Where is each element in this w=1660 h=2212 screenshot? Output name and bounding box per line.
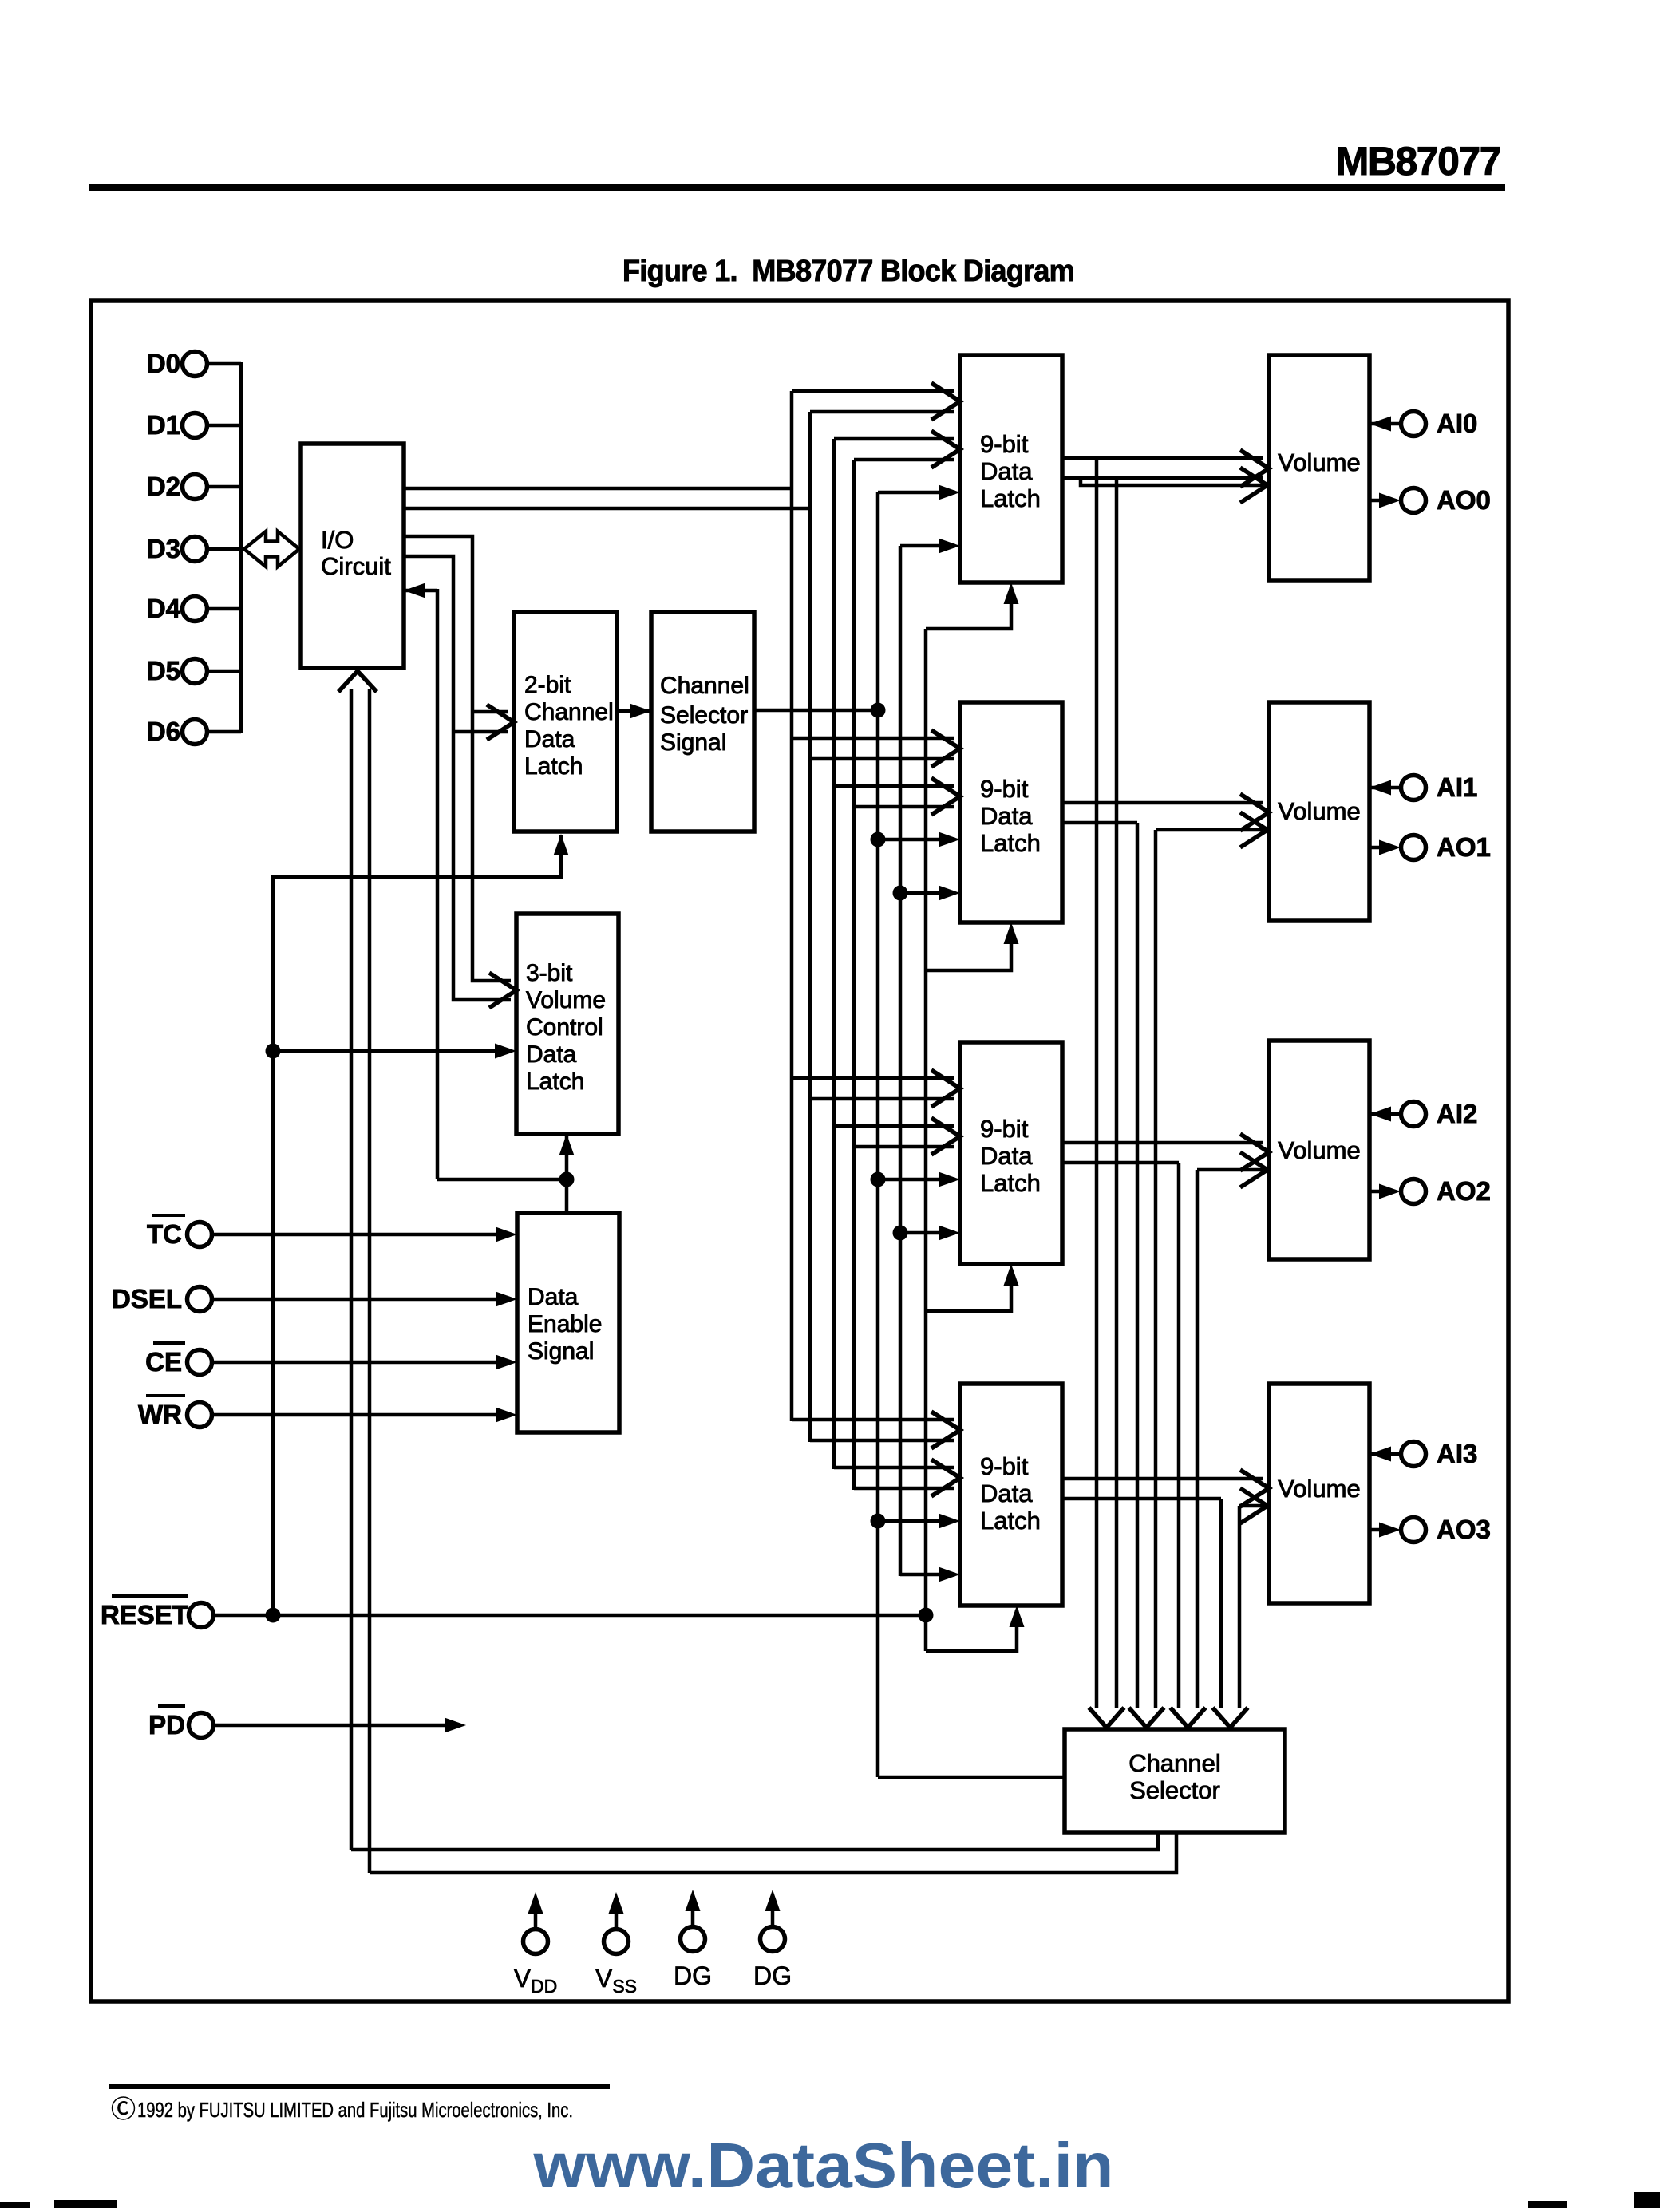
- bus arrow channel 3 into channel selector: [1213, 1708, 1248, 1728]
- wire latch 3 output pair to volume: [1062, 1477, 1263, 1481]
- svg-text:AI0: AI0: [1437, 409, 1477, 438]
- svg-text:3-bit: 3-bit: [526, 960, 573, 986]
- bidirectional bus arrow D-bus to I/O: [244, 531, 299, 567]
- wire clock into latch 2: [926, 927, 1011, 970]
- svg-text:Data: Data: [526, 1041, 577, 1068]
- scan artifact bottom-center-right: [1528, 2201, 1567, 2208]
- wire select return into volume 2: [1197, 1168, 1263, 1172]
- wire select into latch 3: [878, 1178, 955, 1182]
- wire channel bus 2 down A: [1177, 1163, 1181, 1708]
- bus arrow B into latch 2: [931, 778, 960, 815]
- node select bus tap latch 2: [871, 832, 886, 847]
- wire I/O data bus line B: [404, 507, 810, 511]
- bus arrow select into volume 2: [1240, 1152, 1267, 1187]
- wire channel select return vertical A: [350, 689, 354, 1850]
- power terminal: [604, 1930, 629, 1954]
- bus arrow into 3-bit volume control data latch: [489, 973, 516, 1008]
- wire volume-select vertical: [899, 546, 903, 1576]
- node volume-select tap latch 3: [893, 1226, 908, 1241]
- svg-text:Selector: Selector: [1129, 1776, 1220, 1804]
- wire branch into 2-bit latch lower: [453, 730, 508, 734]
- wire AO0 from volume: [1369, 499, 1395, 503]
- block Channel Selector: [1065, 1729, 1285, 1832]
- pin AO1 terminal: [1401, 835, 1426, 860]
- svg-text:Channel: Channel: [524, 699, 614, 725]
- wire TC to data enable signal: [212, 1233, 511, 1237]
- bus arrow into volume 3: [1240, 1470, 1269, 1507]
- pin D4 terminal: [183, 597, 207, 622]
- wire channel bus 1 down A: [1136, 823, 1140, 1708]
- svg-text:DG: DG: [674, 1961, 712, 1990]
- wire clock into latch 4: [926, 1610, 1017, 1651]
- svg-text:Channel: Channel: [1128, 1749, 1220, 1777]
- wire data bus vertical: [239, 362, 243, 733]
- bus arrow channel 1 into channel selector: [1129, 1708, 1164, 1728]
- wire AO1 from volume: [1369, 846, 1395, 850]
- svg-text:AI1: AI1: [1437, 772, 1477, 802]
- svg-text:D5: D5: [147, 656, 180, 685]
- pin WR terminal: [188, 1403, 212, 1428]
- wire data bus pair A into latch 1: [792, 389, 954, 393]
- wire AI3 into volume: [1369, 1452, 1401, 1456]
- wire data bus pair A into latch 2: [792, 737, 954, 741]
- svg-text:Signal: Signal: [660, 729, 726, 756]
- node RESET to 2-bit/3-bit branch: [266, 1608, 281, 1623]
- wire data-enable feedback into I/O: [404, 589, 437, 593]
- svg-text:Latch: Latch: [980, 1169, 1041, 1197]
- wire channel bus 3 down B: [1238, 1506, 1242, 1708]
- wire AI2 into volume: [1369, 1112, 1401, 1116]
- svg-text:TC: TC: [147, 1219, 182, 1249]
- wire 2-bit latch to channel selector signal: [617, 709, 651, 713]
- block I/O Circuit: [301, 444, 404, 668]
- wire bus vertical 4: [852, 460, 856, 1490]
- pin CE terminal: [188, 1350, 212, 1375]
- wire data bus pair B into latch 2: [834, 784, 954, 788]
- wire channel select return vertical B: [368, 689, 372, 1873]
- bus arrow A into latch 3: [931, 1070, 960, 1107]
- svg-text:Latch: Latch: [980, 1507, 1041, 1535]
- svg-text:DG: DG: [753, 1961, 792, 1990]
- wire D1 stub: [207, 424, 241, 428]
- svg-text:Volume: Volume: [1278, 1136, 1360, 1164]
- svg-text:Data: Data: [980, 457, 1033, 485]
- wire channel bus 2 down B: [1196, 1170, 1200, 1708]
- pin PD terminal: [189, 1713, 214, 1738]
- wire channel selector signal output: [754, 709, 878, 713]
- svg-text:VDD: VDD: [514, 1964, 558, 1997]
- svg-text:D6: D6: [147, 717, 180, 746]
- block 9-bit Data Latch 2: [960, 702, 1062, 922]
- svg-text:AO0: AO0: [1437, 485, 1491, 515]
- svg-text:Latch: Latch: [526, 1068, 584, 1095]
- svg-text:Enable: Enable: [528, 1311, 602, 1337]
- wire AI1 into volume: [1369, 786, 1401, 790]
- wire volume-select into latch 3: [900, 1231, 955, 1235]
- svg-text:9-bit: 9-bit: [980, 430, 1029, 458]
- wire channel bus 0 down A: [1095, 458, 1099, 1708]
- bus arrow select into volume 3: [1240, 1488, 1267, 1523]
- svg-text:Ⓒ: Ⓒ: [111, 2095, 136, 2123]
- bus arrow channel 2 into channel selector: [1171, 1708, 1206, 1728]
- svg-text:9-bit: 9-bit: [980, 1115, 1029, 1143]
- bus arrow into volume 2: [1240, 1134, 1269, 1171]
- svg-text:Circuit: Circuit: [321, 552, 391, 580]
- wire WR to data enable signal: [212, 1413, 511, 1417]
- copyright rule: [109, 2084, 610, 2089]
- pin TC terminal: [188, 1223, 212, 1247]
- bus arrow select into volume 1: [1240, 812, 1267, 847]
- node RESET to latch clock bus: [919, 1608, 934, 1623]
- power terminal: [524, 1930, 548, 1954]
- pin AI1 terminal: [1401, 776, 1426, 800]
- svg-text:Data: Data: [528, 1284, 579, 1310]
- pin D1 terminal: [183, 413, 207, 438]
- wire volume-select into latch 1: [900, 544, 955, 548]
- wire clock into latch 1: [926, 587, 1011, 629]
- pin AI2 terminal: [1401, 1102, 1426, 1127]
- pin D3 terminal: [183, 537, 207, 562]
- svg-text:Latch: Latch: [980, 829, 1041, 857]
- bus arrow into volume 1: [1240, 794, 1269, 831]
- block Volume 3: [1269, 1384, 1369, 1603]
- bus arrow B into latch 1: [931, 431, 960, 468]
- wire AO2 from volume: [1369, 1190, 1395, 1194]
- pin RESET terminal: [189, 1603, 214, 1628]
- block 3-bit Volume Control Data Latch: [516, 914, 619, 1134]
- svg-text:Channel: Channel: [660, 673, 749, 699]
- wire DES to 3-bit latch clock: [565, 1134, 569, 1213]
- bus arrow into volume 0: [1240, 450, 1269, 487]
- wire select into latch 1: [878, 491, 955, 495]
- block 9-bit Data Latch 4: [960, 1384, 1062, 1606]
- power terminal: [681, 1927, 705, 1952]
- wire channel selector bottom output A: [351, 1832, 1158, 1850]
- svg-text:DSEL: DSEL: [112, 1284, 182, 1313]
- svg-text:VSS: VSS: [595, 1964, 637, 1997]
- svg-text:I/O: I/O: [321, 526, 354, 554]
- wire D6 stub: [207, 730, 241, 734]
- pin AI0 terminal: [1401, 412, 1426, 436]
- svg-text:PD: PD: [148, 1710, 185, 1740]
- wire data bus pair B into latch 1: [834, 437, 954, 441]
- wire channel bus 0 down B: [1115, 478, 1119, 1708]
- wire select into latch 4: [878, 1519, 955, 1523]
- pin D5 terminal: [183, 659, 207, 684]
- svg-text:Volume: Volume: [526, 987, 606, 1013]
- svg-text:Data: Data: [524, 726, 575, 752]
- wire data bus pair A into latch 4: [792, 1418, 954, 1422]
- svg-text:Data: Data: [980, 1142, 1033, 1170]
- svg-text:D1: D1: [147, 410, 180, 440]
- wire latch 0 output pair to volume: [1062, 456, 1263, 460]
- wire clock into latch 3: [926, 1269, 1011, 1311]
- svg-text:Data: Data: [980, 1479, 1033, 1507]
- svg-text:1992 by FUJITSU LIMITED and Fu: 1992 by FUJITSU LIMITED and Fujitsu Micr…: [137, 2098, 573, 2122]
- bus arrow into I/O bottom: [338, 671, 377, 692]
- svg-text:D2: D2: [147, 472, 180, 501]
- node 3-bit latch input branch: [266, 1044, 281, 1059]
- svg-text:www.DataSheet.in: www.DataSheet.in: [532, 2130, 1113, 2201]
- svg-text:RESET: RESET: [101, 1600, 188, 1629]
- wire branch into 2-bit latch upper: [472, 710, 508, 714]
- bus arrow A into latch 2: [931, 730, 960, 767]
- node CSS output to select bus: [871, 703, 886, 718]
- svg-text:AO2: AO2: [1437, 1176, 1491, 1206]
- block 9-bit Data Latch 1: [960, 355, 1062, 583]
- scan artifact bottom-left: [0, 2202, 30, 2208]
- bus arrow B into latch 4: [931, 1460, 960, 1496]
- svg-text:Latch: Latch: [980, 484, 1041, 512]
- block Channel Selector Signal: [651, 612, 754, 831]
- wire feedback horizontal to DES node: [437, 1178, 567, 1182]
- header rule: [89, 184, 1505, 191]
- svg-text:Volume: Volume: [1278, 797, 1360, 825]
- pin D6 terminal: [183, 720, 207, 745]
- svg-text:WR: WR: [138, 1400, 182, 1429]
- wire data bus pair B into latch 4: [834, 1466, 954, 1470]
- pin AO0 terminal: [1401, 488, 1426, 513]
- node volume-select tap latch 2: [893, 886, 908, 901]
- wire feedback vertical: [436, 589, 440, 1179]
- node select bus tap latch 3: [871, 1172, 886, 1187]
- node DES / 3-bit latch junction: [559, 1172, 575, 1187]
- block Data Enable Signal: [517, 1213, 619, 1432]
- svg-text:Signal: Signal: [528, 1338, 594, 1365]
- wire I/O data bus line A: [404, 487, 792, 491]
- svg-text:Volume: Volume: [1278, 448, 1360, 476]
- wire AI0 into volume: [1369, 422, 1401, 426]
- svg-text:D4: D4: [147, 594, 181, 623]
- bus arrow into 2-bit channel data latch: [487, 705, 514, 740]
- wire into 3-bit latch data: [273, 1049, 511, 1053]
- bus arrow B into latch 3: [931, 1118, 960, 1155]
- svg-text:MB87077: MB87077: [1336, 139, 1500, 184]
- svg-text:D0: D0: [147, 349, 180, 378]
- outer diagram border: [91, 301, 1508, 2001]
- block Volume 0: [1269, 355, 1369, 580]
- power terminal: [761, 1927, 785, 1952]
- wire latch 1 output pair to volume: [1062, 801, 1263, 805]
- wire channel bus 1 down B: [1154, 830, 1158, 1708]
- svg-text:AI2: AI2: [1437, 1099, 1477, 1128]
- wire CE to data enable signal: [212, 1361, 511, 1365]
- wire select return into volume 0: [1081, 478, 1263, 485]
- pin D0 terminal: [183, 352, 207, 377]
- wire select bus to channel selector: [878, 1776, 1065, 1779]
- pin D2 terminal: [183, 475, 207, 500]
- bus arrow A into latch 1: [931, 383, 960, 420]
- svg-text:Data: Data: [980, 802, 1033, 830]
- wire data bus pair A into latch 3: [792, 1076, 954, 1080]
- wire select bus vertical: [876, 492, 880, 1777]
- wire latch clock vertical: [924, 629, 928, 1651]
- wire D2 stub: [207, 485, 241, 489]
- svg-text:Volume: Volume: [1278, 1475, 1360, 1503]
- svg-text:9-bit: 9-bit: [980, 1452, 1029, 1480]
- bus arrow select into volume 0: [1240, 468, 1267, 503]
- wire data bus pair B into latch 3: [834, 1124, 954, 1128]
- wire DSEL to data enable signal: [212, 1298, 511, 1302]
- pin DSEL terminal: [188, 1287, 212, 1312]
- pin AI3 terminal: [1401, 1442, 1426, 1467]
- bus arrow channel 0 into channel selector: [1089, 1708, 1124, 1728]
- wire bus vertical 1: [790, 391, 794, 1421]
- wire AO3 from volume: [1369, 1528, 1395, 1532]
- node select bus tap latch 4: [871, 1514, 886, 1529]
- wire bus vertical 3: [832, 439, 836, 1469]
- scan artifact bottom-right corner: [1634, 2192, 1660, 2208]
- svg-text:AO1: AO1: [1437, 832, 1491, 862]
- wire bus vertical 2: [808, 412, 812, 1442]
- block Volume 2: [1269, 1041, 1369, 1259]
- wire reset branch vertical: [271, 875, 275, 1615]
- wire select return into volume 3: [1239, 1504, 1263, 1508]
- pin AO3 terminal: [1401, 1518, 1426, 1542]
- wire PD line: [214, 1724, 460, 1728]
- block 2-bit Channel Data Latch: [514, 612, 617, 831]
- wire volume-select into latch 2: [900, 891, 955, 895]
- svg-text:CE: CE: [145, 1347, 182, 1377]
- wire I/O to channel/volume latch lower: [404, 556, 511, 1000]
- wire I/O to channel/volume latch upper: [404, 536, 511, 981]
- wire latch 2 output pair to volume: [1062, 1141, 1263, 1145]
- wire channel selector bottom output B: [370, 1832, 1176, 1873]
- svg-text:Latch: Latch: [524, 753, 583, 780]
- block 9-bit Data Latch 3: [960, 1042, 1062, 1264]
- pin AO2 terminal: [1401, 1179, 1426, 1204]
- wire D3 stub: [207, 547, 241, 551]
- svg-text:9-bit: 9-bit: [980, 775, 1029, 803]
- block Volume 1: [1269, 702, 1369, 921]
- svg-text:Selector: Selector: [660, 702, 748, 729]
- wire channel bus 3 down A: [1219, 1499, 1223, 1708]
- wire D4 stub: [207, 607, 241, 611]
- wire D5 stub: [207, 670, 241, 673]
- wire select return into volume 1: [1156, 828, 1263, 832]
- svg-text:AI3: AI3: [1437, 1439, 1477, 1468]
- svg-text:D3: D3: [147, 534, 180, 563]
- svg-text:Figure 1. MB87077 Block Diagr: Figure 1. MB87077 Block Diagram: [622, 255, 1074, 288]
- wire 2-bit latch clock: [273, 835, 561, 877]
- svg-text:AO3: AO3: [1437, 1515, 1491, 1544]
- svg-text:2-bit: 2-bit: [524, 672, 571, 698]
- wire D0 stub: [207, 362, 241, 366]
- svg-text:Control: Control: [526, 1014, 603, 1041]
- wire RESET line: [214, 1614, 926, 1618]
- wire volume-select into latch 4: [900, 1573, 955, 1577]
- wire select into latch 2: [878, 838, 955, 842]
- bus arrow A into latch 4: [931, 1412, 960, 1448]
